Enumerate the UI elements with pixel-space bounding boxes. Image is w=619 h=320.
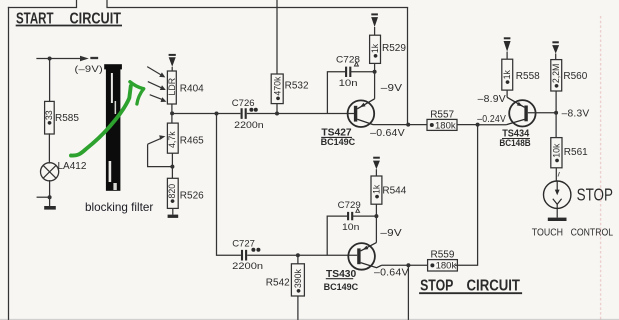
supply arrow above R544 xyxy=(373,158,380,176)
svg-text:(–9V): (–9V) xyxy=(75,64,104,75)
svg-text:10n: 10n xyxy=(339,78,358,89)
supply arrow above R560 xyxy=(552,42,559,59)
wire down from R559 node to bottom xyxy=(407,265,409,320)
svg-text:–0.24V: –0.24V xyxy=(477,114,506,125)
capacitor C727 xyxy=(232,238,263,272)
wire R557 right lead xyxy=(457,124,478,126)
svg-text:180k: 180k xyxy=(436,261,457,272)
label STOP CIRCUIT xyxy=(419,278,522,295)
wire lamp to ground xyxy=(49,181,51,206)
wire dash after arrow xyxy=(92,57,98,59)
light arrow 1 at LDR xyxy=(147,67,165,78)
svg-text:BC148B: BC148B xyxy=(499,138,530,148)
arrowhead -9V feed xyxy=(80,56,89,62)
light arrow 2 at LDR xyxy=(148,82,166,90)
scan artifact bottom edge xyxy=(0,318,619,320)
trimmer R465 xyxy=(148,123,205,167)
wire main row to TS427 base xyxy=(172,113,354,115)
svg-text:R465: R465 xyxy=(180,136,204,147)
svg-text:–8.3V: –8.3V xyxy=(562,108,590,119)
svg-text:–0.64V: –0.64V xyxy=(374,268,409,279)
transistor TS434 xyxy=(499,97,556,148)
svg-text:LA412: LA412 xyxy=(58,161,87,172)
node wiper junction xyxy=(170,165,174,169)
svg-text:LDR: LDR xyxy=(167,78,177,96)
svg-text:2200n: 2200n xyxy=(234,120,263,131)
resistor R585 xyxy=(44,101,79,134)
svg-text:R559: R559 xyxy=(431,250,455,261)
resistor R558 xyxy=(502,59,540,97)
svg-text:STOP: STOP xyxy=(577,184,613,204)
label START CIRCUIT xyxy=(16,11,122,28)
svg-text:–0.64V: –0.64V xyxy=(370,128,405,139)
wire -8.3V node to R561 xyxy=(555,113,557,138)
svg-text:R585: R585 xyxy=(55,113,79,124)
svg-text:R558: R558 xyxy=(516,71,540,82)
frame left border xyxy=(8,8,10,320)
svg-text:R544: R544 xyxy=(382,185,406,196)
wire base TS434 from -0.24V node xyxy=(478,124,507,126)
svg-text:R542: R542 xyxy=(266,278,290,289)
svg-text:–9V: –9V xyxy=(381,83,403,94)
svg-text:●1k: ●1k xyxy=(370,43,380,58)
svg-text:BC149C: BC149C xyxy=(324,282,359,292)
ground below R526 xyxy=(168,215,179,218)
label TOUCH CONTROL xyxy=(532,227,614,238)
svg-text:TS430: TS430 xyxy=(326,269,357,280)
wire R532 feed from top edge xyxy=(276,0,278,74)
wire C729 right to collector column xyxy=(352,215,376,217)
svg-text:R557: R557 xyxy=(430,110,454,121)
wire R585 to lamp xyxy=(48,134,50,163)
svg-text:–9V: –9V xyxy=(380,228,402,239)
svg-text:●33: ●33 xyxy=(44,110,54,125)
svg-text:C729: C729 xyxy=(338,200,361,211)
transistor TS427 xyxy=(321,99,375,147)
capacitor C728 xyxy=(336,55,360,89)
svg-text:blocking filter: blocking filter xyxy=(85,201,153,214)
svg-text:R529: R529 xyxy=(382,43,406,54)
wire emitter TS427 to R557 xyxy=(373,124,427,126)
wire R585 top xyxy=(49,59,51,102)
lamp LA412 xyxy=(41,161,87,181)
wire LDR bottom xyxy=(171,104,173,123)
black marker annotation (blocking filter bar) xyxy=(104,64,122,191)
node junction left of R557 xyxy=(406,123,410,127)
green hand-drawn arrow annotation xyxy=(71,82,144,156)
transistor TS430 xyxy=(324,243,382,292)
svg-text:●390k: ●390k xyxy=(293,269,303,294)
svg-text:C728: C728 xyxy=(336,55,360,66)
ground below touch contact xyxy=(548,218,567,221)
wire collector vertical TS427 xyxy=(374,72,376,99)
node junction above R542 xyxy=(296,253,300,257)
wire frame right vertical to R557 junction xyxy=(407,8,409,125)
wire C728 right to collector node xyxy=(350,71,374,73)
svg-text:●2,2M: ●2,2M xyxy=(551,64,561,89)
node junction below R532 xyxy=(275,112,279,116)
resistor R544 xyxy=(371,176,407,216)
scan artifact pink line right xyxy=(600,16,602,320)
wire C728 left to base xyxy=(327,72,346,114)
wire stub left of ground node xyxy=(37,196,49,198)
supply arrow above R558 xyxy=(504,38,511,59)
svg-text:TOUCH: TOUCH xyxy=(532,227,563,238)
wire R526 to ground xyxy=(172,208,174,214)
svg-text:4,7k: 4,7k xyxy=(167,131,177,148)
wire drop column to C727 row xyxy=(217,114,241,256)
node junction -0.24V xyxy=(476,123,480,127)
wire -9V feed horizontal xyxy=(37,58,80,60)
svg-text:●10k: ●10k xyxy=(551,143,561,163)
tick mark on touch wire xyxy=(558,172,560,177)
supply arrow above R529 xyxy=(371,14,378,35)
frame top border xyxy=(9,0,408,8)
svg-text:R404: R404 xyxy=(180,83,204,94)
resistor R557 xyxy=(427,110,457,132)
resistor R526 xyxy=(167,178,204,208)
wire vertical from -0.24V node down to R559 xyxy=(455,125,478,266)
resistor R532 xyxy=(271,74,309,114)
resistor R529 xyxy=(370,35,407,72)
node junction -8.3V xyxy=(554,111,558,115)
resistor R560 xyxy=(551,60,588,113)
wire R465 to R526 xyxy=(171,153,173,178)
svg-text:R560: R560 xyxy=(563,71,587,82)
ground below lamp xyxy=(44,206,56,210)
capacitor C726 xyxy=(232,98,264,131)
svg-text:–8.9V: –8.9V xyxy=(478,94,506,105)
resistor R542 xyxy=(266,255,305,320)
touch contact STOP xyxy=(544,181,571,218)
svg-text:180k: 180k xyxy=(435,120,456,131)
node junction left of R559 xyxy=(406,263,410,267)
svg-text:●1k: ●1k xyxy=(371,184,381,199)
node junction lamp-ground stub xyxy=(48,195,52,199)
wire C727 to TS430 base xyxy=(247,254,357,256)
node junction at R585 top xyxy=(48,57,52,61)
photoresistor LDR R404 xyxy=(167,71,204,104)
wire collector vertical TS430 xyxy=(375,216,377,243)
svg-text:STOP: STOP xyxy=(420,278,454,295)
capacitor C729 xyxy=(338,200,361,233)
resistor R559 xyxy=(428,250,458,272)
svg-text:R532: R532 xyxy=(285,80,309,91)
node LDR bottom junction xyxy=(170,111,174,115)
resistor R561 xyxy=(551,138,588,181)
wire C729 left to TS430 base xyxy=(327,216,348,255)
light arrow 3 at LDR xyxy=(150,95,167,102)
svg-text:R561: R561 xyxy=(564,147,588,158)
svg-text:●1k: ●1k xyxy=(502,69,512,84)
svg-text:C726: C726 xyxy=(232,98,255,109)
svg-text:BC149C: BC149C xyxy=(321,137,356,147)
svg-text:CIRCUIT: CIRCUIT xyxy=(467,278,521,295)
svg-text:C727: C727 xyxy=(232,238,255,249)
supply arrow above LDR xyxy=(169,55,176,71)
svg-text:10n: 10n xyxy=(342,222,359,233)
node junction drop column xyxy=(215,112,219,116)
svg-text:R526: R526 xyxy=(180,191,204,202)
node junction C729 right xyxy=(374,214,378,218)
node collector junction TS427 xyxy=(373,70,377,74)
svg-text:CONTROL: CONTROL xyxy=(571,227,614,238)
svg-text:●820: ●820 xyxy=(167,184,177,204)
wire emitter TS430 to R559 xyxy=(382,264,428,266)
svg-text:●470k: ●470k xyxy=(272,76,282,101)
svg-text:2200n: 2200n xyxy=(232,261,263,272)
